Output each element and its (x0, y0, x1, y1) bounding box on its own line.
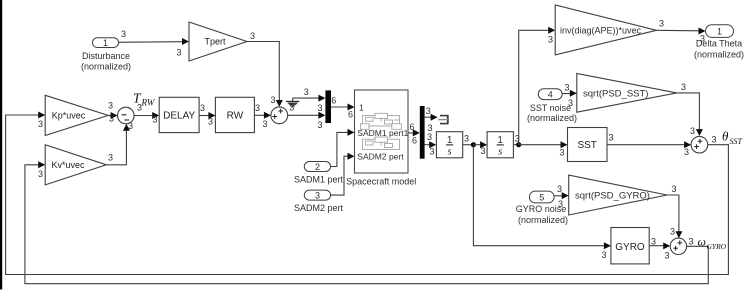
inport 4 SST noise (527, 89, 577, 123)
svg-text:3: 3 (262, 119, 267, 129)
svg-text:s: s (448, 147, 452, 158)
inport 2 SADM1 pert (294, 162, 344, 185)
svg-text:1: 1 (717, 26, 722, 36)
svg-text:(normalized): (normalized) (518, 215, 568, 225)
svg-text:3: 3 (464, 133, 469, 143)
svg-text:3: 3 (684, 147, 689, 157)
wire node to integrator2 (473, 141, 487, 156)
svg-text:3: 3 (548, 35, 553, 45)
svg-text:(normalized): (normalized) (81, 62, 131, 72)
svg-text:1: 1 (447, 135, 453, 146)
wire inv gain to outport1 (656, 18, 705, 43)
svg-text:1: 1 (103, 38, 108, 48)
wire inport3 to spacecraft in3 (331, 153, 355, 195)
integrator1 1/s (436, 132, 462, 158)
svg-text:3: 3 (426, 106, 431, 116)
svg-text:RW: RW (227, 111, 244, 122)
svg-text:3: 3 (557, 184, 562, 194)
block RW (215, 97, 254, 132)
svg-text:3: 3 (250, 31, 255, 41)
sum1 (minus minus) (118, 107, 135, 124)
svg-text:RW: RW (141, 98, 156, 108)
svg-text:3: 3 (317, 120, 322, 130)
wire sum1 to DELAY (134, 103, 159, 125)
block GYRO (611, 228, 649, 264)
window left border (0, 0, 2, 290)
svg-text:sqrt(PSD_SST): sqrt(PSD_SST) (583, 88, 648, 99)
svg-text:(normalized): (normalized) (694, 50, 744, 60)
svg-text:3: 3 (304, 87, 309, 97)
svg-text:3: 3 (430, 146, 435, 156)
mux (325, 90, 331, 123)
svg-text:3: 3 (270, 95, 275, 105)
svg-text:3: 3 (559, 148, 564, 158)
svg-text:GYRO: GYRO (707, 242, 727, 251)
svg-text:6: 6 (410, 122, 415, 132)
gain Tpert (189, 22, 247, 61)
svg-text:3: 3 (152, 115, 157, 125)
svg-text:Delta Theta: Delta Theta (696, 39, 742, 49)
demux (420, 106, 425, 159)
svg-text:3: 3 (208, 117, 213, 127)
svg-text:3: 3 (688, 237, 693, 247)
svg-text:3: 3 (176, 48, 181, 58)
wire sum2 to mux bottom (288, 112, 326, 130)
svg-text:3: 3 (601, 250, 606, 260)
svg-text:3: 3 (670, 227, 675, 237)
svg-text:SADM1 pert1: SADM1 pert1 (357, 128, 408, 138)
svg-text:3: 3 (671, 184, 676, 194)
svg-text:3: 3 (427, 132, 432, 142)
inport 5 GYRO noise (516, 191, 568, 225)
ground symbol (286, 98, 300, 112)
svg-text:3: 3 (108, 101, 113, 111)
inport 3 SADM2 pert (294, 190, 344, 213)
svg-text:3: 3 (558, 199, 563, 209)
svg-text:3: 3 (711, 135, 716, 145)
wire DELAY to RW (199, 103, 215, 127)
svg-text:3: 3 (289, 103, 294, 113)
svg-text:SADM2 pert: SADM2 pert (294, 203, 344, 213)
svg-text:5: 5 (539, 193, 544, 203)
svg-text:Disturbance: Disturbance (82, 51, 130, 61)
label theta_SST (722, 128, 743, 146)
svg-text:SST: SST (730, 137, 743, 146)
svg-text:3: 3 (38, 119, 43, 129)
svg-text:3: 3 (681, 82, 686, 92)
svg-text:3: 3 (568, 98, 573, 108)
wire node2 to SST (519, 141, 568, 157)
svg-text:3: 3 (255, 103, 260, 113)
svg-text:sqrt(PSD_GYRO): sqrt(PSD_GYRO) (575, 191, 650, 202)
sum omega_GYRO (plus plus) (670, 238, 686, 254)
subsystem Spacecraft model (346, 90, 416, 187)
terminator (438, 115, 448, 124)
gain sqrt(PSD_SST) (577, 73, 677, 112)
node after integrator2 (513, 133, 521, 147)
node after integrator1 (463, 133, 476, 147)
svg-text:2: 2 (315, 162, 320, 172)
wire SST to sum theta (607, 133, 691, 158)
svg-text:3: 3 (651, 237, 656, 247)
svg-text:3: 3 (38, 169, 43, 179)
gain Kv*uvec (45, 145, 106, 185)
label T_RW (133, 91, 156, 108)
svg-text:Tpert: Tpert (204, 37, 226, 47)
label omega_GYRO (698, 235, 727, 252)
svg-text:3: 3 (108, 153, 113, 163)
block SST (568, 128, 608, 162)
outport 1 Delta Theta (normalized) (694, 25, 744, 60)
gain sqrt(PSD_GYRO) (569, 175, 667, 215)
wire inport1 to Tpert (119, 29, 190, 58)
wire node2 up to inv gain (519, 27, 556, 145)
svg-text:1: 1 (359, 102, 364, 112)
svg-text:1: 1 (497, 135, 503, 146)
svg-text:SADM2 pert: SADM2 pert (357, 151, 404, 161)
gain inv(diag(APE))*uvec (555, 5, 656, 55)
svg-text:4: 4 (548, 90, 553, 100)
svg-text:ω: ω (698, 235, 706, 249)
wire ground to mux top (293, 87, 326, 113)
svg-text:3: 3 (317, 103, 322, 113)
gain Kp*uvec (45, 95, 108, 135)
svg-text:3: 3 (608, 133, 613, 143)
svg-text:DELAY: DELAY (163, 111, 195, 122)
svg-text:Kv*uvec: Kv*uvec (51, 160, 85, 170)
wire demux to terminator (425, 106, 438, 133)
wire RW to sum2 (254, 103, 271, 129)
svg-text:Kp*uvec: Kp*uvec (52, 110, 86, 120)
svg-text:3: 3 (564, 83, 569, 93)
wire inport4 to sqrt(PSD_SST) (562, 83, 577, 108)
wire node1 down to GYRO (473, 145, 611, 260)
svg-text:3: 3 (137, 103, 142, 113)
wire inport2 to spacecraft in2 (331, 129, 355, 167)
svg-text:3: 3 (121, 29, 126, 39)
feedback wire theta_SST (right edge down, bottom, left edge up) (6, 112, 729, 275)
sum2 (plus plus) (271, 107, 288, 124)
wire sqrt(PSD_GYRO) to sum omega top (667, 184, 682, 238)
svg-text:3: 3 (659, 18, 664, 28)
svg-text:6: 6 (331, 96, 336, 106)
wire spacecraft to demux (408, 122, 420, 145)
feedback wire omega_GYRO (down, bottom, left, up to Kv) (25, 161, 708, 283)
svg-text:3: 3 (200, 103, 205, 113)
svg-text:3: 3 (690, 126, 695, 136)
svg-text:θ: θ (722, 128, 729, 143)
svg-text:3: 3 (315, 190, 320, 200)
wire sqrt(PSD_SST) to sum theta top (677, 82, 703, 136)
block DELAY (159, 97, 199, 132)
wire Kp to sum1 (108, 101, 118, 124)
wire GYRO to sum omega (649, 237, 670, 261)
wire mux to spacecraft in1 (331, 96, 355, 120)
sum theta_SST (plus plus) (691, 136, 708, 153)
wire inport5 to sqrt(PSD_GYRO) (554, 184, 569, 209)
inport 1 Disturbance (normalized) (81, 38, 131, 72)
wire Tpert to sum2 (247, 31, 283, 107)
svg-text:6: 6 (348, 110, 353, 120)
svg-text:SST: SST (577, 140, 596, 151)
svg-text:s: s (498, 147, 502, 158)
svg-text:SADM1 pert: SADM1 pert (294, 174, 344, 184)
svg-text:(normalized): (normalized) (527, 113, 577, 123)
integrator2 1/s (487, 132, 513, 158)
wire demux to integrator1 (425, 132, 437, 156)
svg-text:6: 6 (412, 135, 417, 145)
svg-text:GYRO: GYRO (615, 242, 645, 253)
svg-text:Spacecraft model: Spacecraft model (346, 177, 416, 187)
wire Kv to sum1 bottom (106, 121, 133, 165)
svg-text:3: 3 (480, 146, 485, 156)
svg-text:inv(diag(APE))*uvec: inv(diag(APE))*uvec (560, 26, 642, 36)
svg-text:3: 3 (109, 114, 114, 124)
svg-text:3: 3 (664, 251, 669, 261)
svg-text:SST noise: SST noise (530, 103, 571, 113)
